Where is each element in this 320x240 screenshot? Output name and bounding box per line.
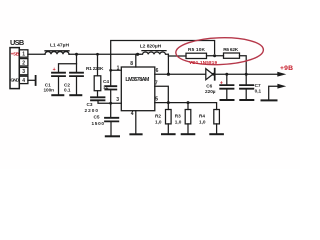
wire: R5-R6 middle link: [207, 55, 224, 57]
wire: C4 top lead: [110, 70, 112, 86]
capacitor C3 plates: [91, 97, 105, 100]
capacitor C6 plates: [220, 85, 233, 89]
svg-text:L1 47µH: L1 47µH: [50, 42, 69, 48]
wire: IC pin8 from rail: [135, 54, 137, 67]
wire: output ground arm: [269, 86, 278, 100]
wire: USB pin1 to L1: [28, 53, 45, 55]
svg-text:C5: C5: [94, 115, 100, 120]
USB connector body: [10, 48, 19, 89]
svg-text:C3: C3: [87, 102, 93, 107]
wire: R6 right lead and drop to C7 node: [240, 56, 247, 74]
output arrow ground: [277, 84, 286, 89]
wire: C5 from pin3 node: [110, 103, 112, 117]
node R3 top: [187, 101, 190, 104]
svg-text:GND: GND: [10, 77, 19, 83]
svg-text:1: 1: [22, 52, 25, 58]
svg-text:22: 22: [103, 84, 109, 89]
svg-text:+: +: [220, 80, 223, 86]
ground terminator at USB pin4: [35, 76, 37, 85]
output arrow +9V: [277, 72, 286, 77]
svg-text:8: 8: [130, 61, 133, 67]
svg-text:3: 3: [116, 97, 119, 103]
wire: C1 to ground: [58, 76, 60, 95]
svg-text:VD1 1N5819: VD1 1N5819: [189, 60, 217, 65]
wire: main rail L1 to pin8 node: [69, 53, 140, 55]
wire: R3 to ground: [187, 124, 189, 134]
svg-text:5: 5: [155, 96, 158, 102]
svg-text:R6 62K: R6 62K: [223, 47, 239, 53]
node pin3: [109, 102, 112, 105]
svg-text:1,0: 1,0: [155, 119, 162, 124]
wire: riser to top feedback rail: [111, 41, 215, 55]
capacitor C7 plates: [240, 85, 253, 89]
node R2 top: [167, 101, 170, 104]
svg-text:LM3578AM: LM3578AM: [125, 77, 149, 83]
svg-text:+9B: +9B: [280, 65, 293, 72]
inductor L2 core bar: [142, 50, 166, 52]
svg-text:R1 220K: R1 220K: [86, 66, 104, 72]
USB pin 1 box: [19, 50, 28, 57]
svg-text:2: 2: [22, 60, 25, 66]
svg-text:4: 4: [22, 78, 25, 84]
ground pin4: [130, 133, 141, 135]
wire: riser down to IC pin1: [111, 54, 122, 70]
wire: C7 top lead: [245, 74, 247, 85]
wire: C6 top lead: [226, 74, 228, 85]
svg-text:2200: 2200: [85, 108, 99, 113]
inductor L1 core bar: [45, 50, 69, 52]
ground R4: [210, 133, 223, 135]
wire: R5 tap from switch node: [168, 55, 186, 57]
node R1 tap: [96, 53, 99, 56]
wire: C3 bottom to pin3 wire: [98, 100, 121, 103]
svg-text:4: 4: [131, 111, 134, 117]
resistor R1 body: [94, 76, 101, 91]
svg-text:6: 6: [156, 68, 159, 74]
USB pin 2 box: [19, 59, 28, 66]
node diode cathode: [212, 73, 215, 76]
red highlight ellipse: [175, 36, 263, 66]
wire: C4 bottom lead: [110, 90, 112, 104]
wire: R1 bottom to C3: [97, 91, 99, 97]
svg-text:1500: 1500: [92, 121, 105, 126]
wire: R2 to ground: [167, 124, 169, 134]
svg-text:0.1: 0.1: [64, 88, 71, 93]
wire: USB pin4 stub: [28, 79, 35, 81]
op-amp U1 LM3578AM box: [121, 67, 155, 111]
svg-text:1: 1: [117, 65, 120, 71]
svg-text:R2: R2: [155, 113, 161, 118]
resistor R6 body: [224, 53, 240, 58]
node C6: [225, 73, 228, 76]
node R5-R6 mid: [213, 54, 216, 57]
wire: C2 branch from rail: [76, 54, 78, 72]
node pin8/L2: [136, 53, 139, 56]
node pin1: [109, 69, 112, 72]
svg-text:C4: C4: [103, 79, 109, 84]
wire: L2 down to switch node: [167, 54, 169, 74]
wire: R3 top lead: [187, 103, 189, 110]
wire: IC pin7 to sense rail: [155, 86, 169, 102]
ground C2: [70, 94, 81, 96]
inductor L1 humps: [45, 52, 69, 55]
svg-text:7: 7: [155, 81, 158, 87]
svg-text:R4: R4: [199, 113, 205, 118]
capacitor C5 plates: [105, 118, 118, 122]
USB pin 3 box: [19, 67, 28, 74]
svg-text:+: +: [53, 67, 56, 73]
diode VD1 cathode bar: [214, 69, 216, 80]
ground C6: [221, 99, 234, 101]
ground R3: [182, 133, 195, 135]
resistor R5 body: [186, 53, 207, 58]
svg-text:R5 10K: R5 10K: [188, 47, 206, 53]
svg-text:3: 3: [22, 69, 25, 75]
node C7/R6: [245, 73, 248, 76]
svg-text:220µ: 220µ: [205, 89, 216, 94]
ground output terminal: [262, 99, 277, 101]
capacitor C4 plates: [105, 86, 116, 89]
svg-text:L2 820µH: L2 820µH: [140, 44, 162, 50]
inductor L2 humps: [140, 52, 168, 54]
wire: R2 top lead: [167, 103, 169, 110]
svg-text:1,0: 1,0: [175, 119, 182, 124]
ground C1: [52, 94, 63, 96]
diode VD1 body: [206, 69, 213, 80]
svg-text:1,0: 1,0: [199, 119, 206, 124]
wire: jog to C1: [59, 64, 77, 73]
ground C5: [106, 135, 119, 137]
wire: C2 to ground: [76, 76, 78, 95]
wire: second rail switch node to output arrow: [155, 73, 278, 75]
svg-text:C6: C6: [206, 83, 212, 88]
svg-text:0,1: 0,1: [255, 88, 262, 93]
node switch: [167, 73, 170, 76]
USB pin 4 box: [19, 76, 28, 83]
wire: C7 to ground: [245, 89, 247, 100]
resistor R4 body: [214, 110, 220, 124]
ground R2: [162, 133, 175, 135]
resistor R2 body: [166, 110, 172, 124]
wire: C5 to ground: [110, 121, 112, 135]
svg-text:C7: C7: [255, 83, 261, 88]
svg-text:100n: 100n: [44, 88, 55, 93]
wire: R4 to ground: [216, 124, 218, 134]
node C1/C2 tap: [75, 53, 78, 56]
junction dots: [75, 53, 286, 105]
svg-text:+5B: +5B: [11, 51, 20, 57]
capacitor C1 plates: [52, 73, 65, 76]
svg-text:R3: R3: [175, 113, 181, 118]
ground C7: [240, 99, 253, 101]
svg-text:USB: USB: [10, 38, 24, 47]
wire: IC pin5 sense rail: [155, 103, 217, 110]
wire: C6 to ground: [226, 89, 228, 100]
capacitor C2 plates: [70, 73, 83, 76]
wire: IC pin4 to ground: [135, 111, 137, 134]
resistor R3 body: [185, 110, 191, 124]
wire: R1 top lead: [97, 54, 99, 76]
